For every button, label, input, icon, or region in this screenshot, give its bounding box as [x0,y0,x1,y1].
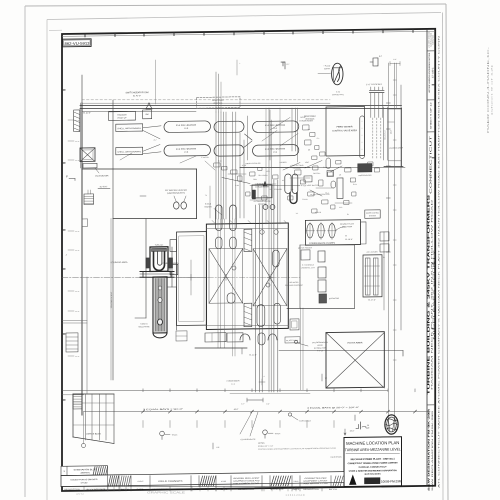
svg-text:E-7: E-7 [379,56,382,58]
heater cross connector lines [247,116,249,160]
svg-text:E-9 A/B: E-9 A/B [205,202,212,205]
svg-text:& FILED: & FILED [81,482,88,484]
feedwater heater stadium row 1 [164,121,211,133]
vent cone on band [146,103,152,109]
svg-text:L: L [240,63,241,65]
svg-text:EL: EL [383,257,385,259]
svg-text:BLR FILL: BLR FILL [313,173,320,175]
svg-text:TRACK: TRACK [172,433,179,436]
lower long dimension line 1 [62,386,388,395]
svg-text:4-3-63: 4-3-63 [221,481,226,483]
feed water control valve area [326,106,365,156]
svg-text:LADDER: LADDER [280,161,288,164]
svg-text:EL 21': EL 21' [75,250,80,252]
hall floor line [82,167,197,170]
svg-text:1 2 6 4 1 2 0 A D: 1 2 6 4 1 2 0 A D [285,493,304,497]
svg-text:B-1: B-1 [270,189,273,191]
svg-text:FD WATER HEATER: FD WATER HEATER [165,189,188,192]
svg-text:AC LOUVER: AC LOUVER [366,250,378,253]
svg-text:TURNTABLE: TURNTABLE [299,419,312,422]
svg-text:TK-2: TK-2 [325,192,329,194]
svg-text:SERVICE: SERVICE [433,35,435,45]
svg-text:E-6 FW HEATER: E-6 FW HEATER [176,124,197,127]
svg-text:EL 21': EL 21' [75,356,80,358]
risers above band [215,72,217,112]
elevator shaft with X [80,148,95,162]
svg-text:CONDENSER: CONDENSER [255,186,270,188]
lower long dimension line 2 with bay ticks [84,407,431,417]
title block logo and number [350,475,356,484]
right column rule [426,29,428,486]
tall valve stadium [360,116,365,159]
svg-text:E-5 FW HEATER: E-5 FW HEATER [265,147,286,150]
generator block [177,232,207,326]
heater drain station box [365,210,380,219]
pipe manifold top right [370,89,385,91]
svg-text:POINT UP: POINT UP [118,118,128,120]
oil room wall [145,219,147,319]
turbine pedestal main outline [206,223,288,330]
svg-text:W.C.: W.C. [339,207,343,209]
svg-text:VENT: VENT [305,162,309,164]
svg-text:HISTORIC AMERICAN ENGINEERING: HISTORIC AMERICAN ENGINEERING RECORD [428,52,431,93]
svg-text:OFFICE BLDG: OFFICE BLDG [86,433,102,435]
svg-text:FIELD CHANGES: FIELD CHANGES [159,480,184,483]
small boxes east wall [380,232,389,241]
svg-text:6'-7": 6'-7" [241,403,245,405]
equipment texture small boxes [214,163,220,167]
svg-text:ATL CONNECTICUT YANKEE ATOMIC: ATL CONNECTICUT YANKEE ATOMIC POWER COMP… [438,34,441,488]
extension ticks below dimension [142,420,144,427]
shell withdrawal box 2 [116,147,143,155]
mezzanine rooms east of pedestal [299,245,301,308]
svg-text:EL 21': EL 21' [75,160,80,162]
svg-text:SPACING EL 30'-0": SPACING EL 30'-0" [110,291,113,308]
leader diagonals to condensate label [240,412,252,434]
title block outline [344,437,402,487]
fittings below pedestal [205,333,226,342]
svg-text:SH 4 DASH: SH 4 DASH [259,174,269,177]
dim line second at y393 [230,392,310,394]
svg-text:EL 21: EL 21 [353,184,357,186]
revision strip upper row [61,466,108,476]
U-shaped exciter block [150,247,168,272]
svg-text:A 5 T 2: A 5 T 2 [76,493,84,496]
svg-text:TURBINE BUILDING & 345KV TRANS: TURBINE BUILDING & 345KV TRANSFORMERS [426,193,430,395]
vertical cylinders pair [285,174,291,194]
small box on band [143,110,152,119]
outer paper mat edge [25,4,446,6]
crane rail dashed line [82,96,330,103]
svg-text:FIELD DRAWN: FIELD DRAWN [331,455,343,458]
right equipment column extra marks [303,125,309,130]
inner mat edge [47,13,441,20]
svg-text:SHELL WITHDRAWAL: SHELL WITHDRAWAL [117,127,141,130]
bracket symbol top center [281,62,285,69]
svg-text:BOSTON MASS: BOSTON MASS [365,472,382,475]
svg-text:E-12: E-12 [323,167,326,169]
oil vapor extractor label [295,340,298,343]
svg-text:P-7 CONSOLE: P-7 CONSOLE [302,264,315,266]
equipment short connector lines [228,173,246,176]
svg-text:LOADING AREA: LOADING AREA [389,146,404,149]
mezzanine floor step lines below pedestal [195,347,247,348]
svg-text:DRAIN COOLER: DRAIN COOLER [246,162,262,165]
svg-text:S&W DESIGNATION FM-9K-29R: S&W DESIGNATION FM-9K-29R [428,408,431,491]
svg-text:DESCRIPTION: DESCRIPTION [64,489,80,491]
svg-text:COND PUMP: COND PUMP [342,226,353,228]
svg-text:E-11: E-11 [218,160,221,162]
east wall of hall [401,108,403,167]
svg-text:EL 19'-6": EL 19'-6" [345,239,353,241]
handwritten dim note left of stamp [354,415,356,421]
svg-text:REMOVABLE: REMOVABLE [304,115,316,118]
cross marks in pedestal [223,276,229,278]
svg-text:NORTH: NORTH [324,68,331,70]
svg-text:BM: BM [146,114,149,116]
svg-text:4"x10"x3/8" BLOCK: 4"x10"x3/8" BLOCK [301,185,320,187]
building west wall [81,75,83,103]
stadiums inside pedestal [216,237,223,249]
svg-text:EL 21'-6": EL 21'-6" [249,354,257,356]
svg-text:PRESSURIZER: PRESSURIZER [358,175,372,177]
svg-text:2-9-61: 2-9-61 [294,481,299,483]
svg-text:SUBSTATION BLDG: SUBSTATION BLDG [74,468,98,471]
svg-text:EL 21': EL 21' [75,231,80,233]
svg-text:(sheet 9 of 12): (sheet 9 of 12) [491,64,494,115]
svg-text:HAER CONN,4-HADNE,1C-: HAER CONN,4-HADNE,1C- [487,46,490,133]
svg-text:ISSUED FOR AS SMOKED: ISSUED FOR AS SMOKED [70,478,98,481]
svg-text:40'-0": 40'-0" [391,130,393,135]
tick dashes on east grid lines [393,79,396,81]
svg-text:HOIST AREA: HOIST AREA [348,341,364,344]
column bubble below office [82,443,86,447]
svg-text:V-1: V-1 [308,129,311,131]
svg-text:EL 21': EL 21' [75,291,80,293]
pipe horn below pedestal [247,399,263,401]
grid bubbles bottom [160,431,165,436]
stamp hatch in upper row [93,467,95,476]
hall south wall line full [240,166,310,168]
west small attachments of generator [170,240,177,252]
svg-text:STATION: STATION [369,214,377,217]
long pipe lines through pedestal [217,219,219,348]
svg-text:EL 41'-6": EL 41'-6" [83,112,91,114]
svg-text:E-10 A/B: E-10 A/B [274,188,282,191]
vessel right step walls [167,286,177,288]
svg-text:U.S. DEPT INTERIOR: U.S. DEPT INTERIOR [429,31,431,48]
svg-text:J: J [65,254,66,256]
svg-text:BELLEVILLE: BELLEVILLE [385,130,387,139]
small circles in pedestal right [260,230,264,234]
102 ft mark [212,443,214,449]
removable roofing dashed area [197,97,240,108]
hoist area with X [326,332,384,388]
svg-text:AND NOTES 7-7-60: AND NOTES 7-7-60 [304,482,328,485]
svg-text:E-2: E-2 [317,138,320,140]
svg-text:E-7: E-7 [287,64,290,66]
svg-text:6-12-67: 6-12-67 [138,481,144,483]
svg-text:WATER CONTROL: WATER CONTROL [366,211,379,214]
svg-text:BR WATER: BR WATER [290,281,299,284]
svg-text:CONDENSATE: CONDENSATE [240,438,256,441]
west lower wall segment [86,277,88,394]
stair hatch office [73,394,82,409]
condensate monitor unit [252,185,272,198]
dark U trap under cylinders [290,193,297,204]
svg-text:4'-7: 4'-7 [154,140,157,142]
svg-text:SHEET 9 OF 12: SHEET 9 OF 12 [431,101,433,130]
svg-text:TRANSITE: TRANSITE [117,114,127,117]
hatched bars center of pedestal [244,229,252,251]
LP heater stadiums above pedestal [216,205,223,231]
turbine centerline [62,276,176,279]
svg-text:CONTROL VALVE AREA: CONTROL VALVE AREA [332,129,358,132]
office building cluster bottom-left [73,393,114,394]
svg-text:ADDITION: ADDITION [80,471,90,474]
svg-text:STORAGE AREA: STORAGE AREA [111,261,129,264]
svg-text:F: F [66,174,68,178]
small stadiums right cluster [326,158,331,169]
revision strip caption row [61,483,344,491]
svg-text:CONNECTICUT: CONNECTICUT [429,135,433,194]
svg-text:DESCRIPTION: DESCRIPTION [152,489,168,491]
condensate pump bank [305,220,360,246]
revision strip main row [61,472,344,487]
svg-text:8'-0": 8'-0" [266,403,270,405]
svg-text:MACHINE LOCATION PLAN: MACHINE LOCATION PLAN [346,440,399,446]
svg-text:HADDAM, CONNECTICUT: HADDAM, CONNECTICUT [359,465,388,468]
svg-text:V-3: V-3 [296,213,299,215]
svg-text:CONDENSER: CONDENSER [227,380,241,382]
pipe space box [109,111,136,120]
svg-text:CT- 185-C: CT- 185-C [432,67,434,78]
svg-text:EL 41'-0": EL 41'-0" [133,95,141,97]
svg-text:FIELD CHECK 10-2-61: FIELD CHECK 10-2-61 [234,483,260,485]
svg-text:EL 21': EL 21' [75,120,80,122]
svg-text:2'-0" ROOFING: 2'-0" ROOFING [366,84,383,86]
svg-text:EL: EL [347,214,349,216]
stair hatch on west wall [74,110,80,132]
leader arrows from withdrawal boxes [143,126,161,128]
svg-text:4: 4 [264,376,265,378]
valve dark triangle [263,181,267,186]
svg-text:45'-0": 45'-0" [234,409,239,411]
turnbuckle leader near dim line [288,413,291,416]
pipe bundle leaders [222,177,250,184]
east dimension ticks and label [388,108,401,110]
svg-text:SHELL WITHDRAWAL: SHELL WITHDRAWAL [117,150,141,153]
pipe bundle center [215,112,217,219]
svg-text:DOUBLE FLOW: DOUBLE FLOW [340,223,354,225]
svg-text:10699-FM-29R: 10699-FM-29R [381,479,402,483]
plus marks [259,381,265,383]
svg-text:NUCLEAR POWER PLANT - UNIT No.: NUCLEAR POWER PLANT - UNIT No.1 [351,457,396,461]
feedwater heater stadium row 2 [164,145,211,157]
svg-text:DESCRIPTION: DESCRIPTION [303,489,319,491]
svg-text:E HATCH: E HATCH [201,156,209,159]
right border row ticks [432,84,436,86]
left border row ticks [62,89,66,91]
svg-text:E-5 FW HEATER: E-5 FW HEATER [176,147,197,150]
inspection stamp scribble [385,415,398,434]
east long column line [400,85,402,330]
air conditioning louver room [363,255,382,297]
svg-text:25'-0": 25'-0" [350,430,355,432]
TC mark below pedestal [321,374,323,381]
svg-text:TURBINE AREA-MEZZANINE LEVEL: TURBINE AREA-MEZZANINE LEVEL [345,447,401,452]
roof pipe band across top [80,101,402,110]
svg-text:CRANE RAIL: CRANE RAIL [332,93,344,96]
svg-text:TURB TO: TURB TO [140,323,148,325]
left margin small marks [68,119,74,121]
svg-text:MEZZANINE: MEZZANINE [138,325,150,328]
top border column ticks [84,34,86,38]
misc leader diagonals upper hall [205,161,215,170]
svg-text:TRACK: TRACK [275,432,282,435]
pedestal X brace left [209,248,243,303]
diagonal leaders above heaters [270,118,290,130]
svg-text:DESCRIPTION: DESCRIPTION [238,489,254,491]
svg-text:TURB AUX: TURB AUX [155,243,164,246]
svg-text:3 EQUAL BAYS = 90'-0": 3 EQUAL BAYS = 90'-0" [143,408,184,412]
dim arrows top of pedestal [209,186,211,218]
top dimension marks near north arrow [390,62,400,64]
pedestal X brace right [253,248,287,306]
svg-text:CONDENSATE PUMPS: CONDENSATE PUMPS [309,242,336,245]
small table below vessel [176,331,187,341]
svg-text:FEED WATER: FEED WATER [336,125,353,128]
svg-text:EL 21': EL 21' [75,141,80,143]
cross bar under exciter [140,270,174,273]
stairs right of west wall [84,194,94,205]
north arrow [332,63,343,85]
svg-text:EL 41'-6": EL 41'-6" [100,186,108,188]
svg-text:GRAPHIC SCALE: GRAPHIC SCALE [147,491,185,495]
sheet number label box top-left [63,39,92,47]
svg-text:+ PLANT: + PLANT [324,64,331,67]
double wall lines right of valve area [382,107,384,160]
svg-text:ELEVATOR: ELEVATOR [329,297,340,300]
svg-text:NOTES: NOTES [258,443,265,445]
grid column lines east [387,63,389,430]
dark equipment box right [358,164,372,172]
small safety boxes [290,319,299,330]
svg-text:ELEVATOR: ELEVATOR [96,174,110,177]
svg-text:ROOF: ROOF [300,117,306,119]
small crane hook marks pedestal top [212,220,215,222]
crane rail symbol E-7 [373,58,378,66]
svg-text:MIDDLESEX COUNTY: MIDDLESEX COUNTY [434,245,436,339]
svg-text:9'-0": 9'-0" [393,59,397,61]
svg-text:SAW RECLAMATION FMSK-29R: SAW RECLAMATION FMSK-29R [431,409,434,491]
svg-text:CHAMBER: CHAMBER [293,167,302,170]
svg-text:P-4: P-4 [291,189,294,191]
svg-text:HTR DR: HTR DR [315,212,322,214]
svg-text:SCALE 3/4" = 1'-0": SCALE 3/4" = 1'-0" [258,445,274,448]
svg-text:862-VU-5913: 862-VU-5913 [65,42,90,46]
svg-text:(UNDERNEATH): (UNDERNEATH) [167,191,186,194]
svg-text:SWITCHGEAR ROOM: SWITCHGEAR ROOM [126,91,149,94]
tall vessel - boiler feed pump [153,277,167,333]
svg-text:MOTOR FEEDER: MOTOR FEEDER [298,247,313,249]
north-south inner wall [112,100,114,380]
drawing border [62,29,435,491]
fine dividers caption row [107,486,109,491]
svg-text:EL 21': EL 21' [75,311,80,313]
svg-text:CONDENSER: CONDENSER [299,120,314,122]
shell withdrawal box 1 [116,124,143,132]
svg-text:HEATER: HEATER [204,205,212,208]
svg-text:EL 37'-6": EL 37'-6" [368,299,376,301]
